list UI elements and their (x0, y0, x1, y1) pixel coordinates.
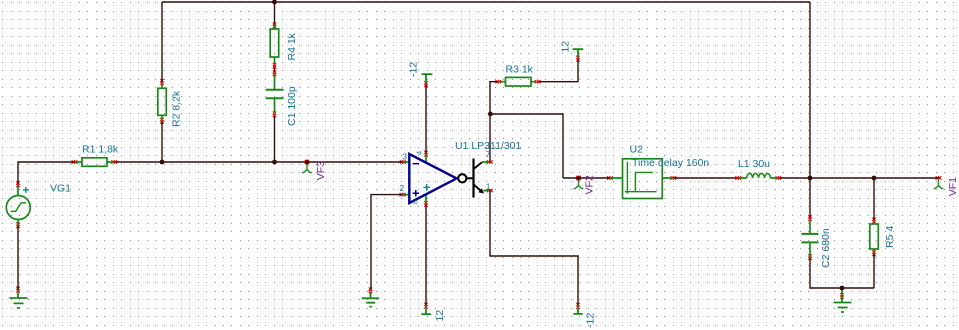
svg-text:R1 1,8k: R1 1,8k (82, 143, 119, 155)
svg-text:Time delay 160n: Time delay 160n (632, 157, 709, 169)
svg-text:VG1: VG1 (50, 182, 71, 194)
svg-text:VF2: VF2 (584, 175, 596, 194)
svg-text:R5 4: R5 4 (884, 226, 896, 248)
svg-text:2: 2 (399, 183, 404, 193)
svg-text:L1 30u: L1 30u (738, 158, 770, 170)
svg-text:4: 4 (417, 151, 424, 155)
svg-text:C1 100p: C1 100p (286, 86, 298, 126)
svg-text:12: 12 (559, 41, 571, 53)
svg-text:R3 1k: R3 1k (506, 64, 534, 76)
svg-text:-12: -12 (407, 62, 419, 77)
svg-text:7: 7 (486, 149, 491, 159)
svg-text:C2 680n: C2 680n (820, 228, 832, 268)
svg-text:8: 8 (413, 200, 420, 204)
svg-text:VF3: VF3 (315, 161, 327, 180)
svg-text:U2: U2 (630, 144, 644, 156)
svg-text:-12: -12 (585, 313, 597, 328)
svg-text:12: 12 (434, 310, 446, 322)
svg-text:3: 3 (402, 151, 407, 161)
svg-text:R4 1k: R4 1k (286, 32, 298, 60)
svg-text:1: 1 (486, 181, 491, 191)
svg-text:VF1: VF1 (947, 177, 959, 196)
svg-text:R2 8,2k: R2 8,2k (170, 90, 182, 127)
